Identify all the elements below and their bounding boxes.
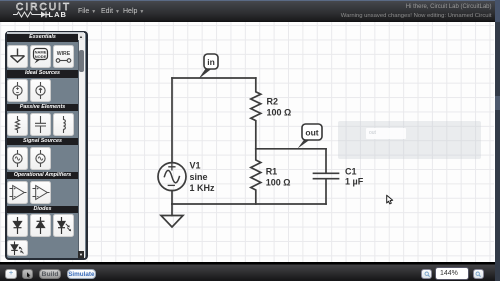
add button	[5, 269, 16, 279]
header Diodes	[7, 206, 78, 214]
menu Edit	[101, 8, 120, 15]
capacitor button	[30, 113, 51, 136]
photodiode button	[7, 240, 28, 257]
svg-text:WIRE: WIRE	[57, 51, 71, 57]
cursor tool button	[22, 269, 33, 279]
ideal current source button	[30, 79, 51, 102]
svg-text:1 µF: 1 µF	[345, 177, 364, 187]
zoom out button	[421, 269, 432, 279]
svg-text:V1: V1	[190, 161, 201, 171]
component palette panel	[5, 31, 88, 260]
header Essentials	[7, 34, 78, 42]
name node button	[30, 45, 51, 68]
capacitor C1	[314, 149, 339, 204]
logo wire+diode	[12, 10, 72, 20]
diode button	[7, 214, 28, 237]
op-amp button 1	[7, 181, 28, 204]
op-amp button 2	[30, 181, 51, 204]
inductor button	[53, 113, 74, 136]
svg-text:1 KHz: 1 KHz	[190, 183, 216, 193]
svg-text:R1: R1	[266, 167, 278, 177]
zoom percent field	[435, 267, 469, 280]
resistor R2	[251, 78, 261, 149]
wire top: V1 top to R2 top	[172, 77, 256, 79]
header Ideal Sources	[7, 70, 78, 78]
wire button	[53, 45, 74, 68]
zoom in button	[473, 269, 484, 279]
svg-text:100 Ω: 100 Ω	[267, 108, 292, 118]
Simulate button	[67, 269, 96, 280]
svg-text:100 Ω: 100 Ω	[266, 178, 291, 188]
right strip top segment	[495, 0, 500, 22]
user text line1	[406, 4, 492, 10]
user text line2	[341, 13, 492, 19]
top toolbar	[0, 0, 495, 22]
wire bottom rail	[172, 203, 326, 205]
logo LAB	[49, 10, 67, 19]
node flag in	[199, 54, 218, 79]
svg-text:R2: R2	[267, 97, 279, 107]
right window strip	[495, 0, 500, 281]
svg-text:NODE: NODE	[35, 53, 47, 58]
svg-text:sine: sine	[190, 172, 208, 182]
resistor button	[7, 113, 28, 136]
scrollbar thumb	[79, 50, 84, 72]
wire V1 bottom	[171, 191, 173, 204]
sine voltage source button	[7, 147, 28, 170]
menu Help	[123, 8, 144, 15]
faded overlay box	[338, 121, 481, 159]
bottom toolbar	[0, 262, 500, 281]
menu File	[78, 8, 96, 15]
header Operational Amplifiers	[7, 172, 78, 180]
wire mid rail (out node)	[256, 148, 326, 150]
scrollbar up arrow	[78, 33, 84, 40]
header Passive Elements	[7, 104, 78, 112]
sine current source button	[30, 147, 51, 170]
ideal voltage source button	[7, 79, 28, 102]
resistor R1	[251, 149, 261, 204]
svg-text:C1: C1	[345, 167, 357, 177]
wire left rail	[171, 78, 173, 163]
mouse cursor	[387, 195, 393, 204]
logo CIRCUIT	[16, 2, 71, 13]
label V1	[190, 97, 364, 194]
ground	[171, 204, 173, 216]
svg-text:out: out	[305, 128, 318, 138]
scrollbar down arrow	[78, 251, 84, 258]
ground symbol button	[7, 45, 28, 68]
overlay inner white box	[366, 128, 406, 139]
LED button	[53, 214, 74, 237]
right strip thumb	[495, 96, 500, 110]
header Signal Sources	[7, 138, 78, 146]
Build button	[39, 269, 62, 280]
diode (reverse) button	[30, 214, 51, 237]
panel top light strip	[7, 32, 84, 34]
voltage source V1	[158, 163, 186, 191]
svg-text:in: in	[207, 57, 215, 67]
node flag out	[298, 124, 322, 149]
palette scrollbar track	[78, 33, 85, 258]
